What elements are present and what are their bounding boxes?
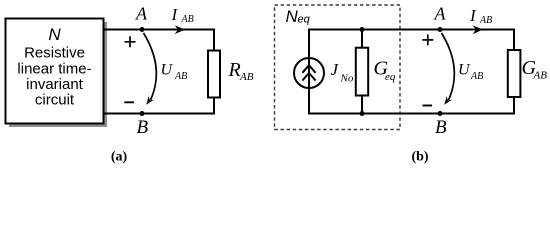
svg-text:B: B [435, 117, 447, 138]
wire Geq branch [361, 29, 363, 115]
wire bottom a (corner to box) [104, 113, 214, 115]
UAB arc a [144, 33, 157, 100]
junction dot Geq top [360, 27, 365, 32]
conductance Geq [356, 48, 368, 96]
svg-text:circuit: circuit [35, 92, 75, 109]
minus a [124, 101, 134, 103]
wire left branch b (through current source) [308, 29, 310, 115]
node B b [438, 111, 443, 116]
svg-text:R: R [228, 59, 241, 81]
current arrow b [473, 25, 483, 34]
UAB arc b [442, 33, 455, 100]
svg-text:AB: AB [239, 71, 254, 83]
box text [17, 45, 91, 109]
box shadow [9, 22, 107, 127]
box N resistive circuit [6, 19, 104, 124]
svg-text:AB: AB [479, 15, 492, 26]
svg-text:I: I [171, 5, 179, 24]
dashed box Neq [275, 5, 401, 130]
resistor RAB [208, 51, 220, 98]
junction dot Geq bottom [360, 111, 365, 116]
svg-text:linear time-: linear time- [17, 60, 91, 77]
wire top a (box to corner) [104, 29, 214, 31]
svg-text:(b): (b) [411, 150, 428, 165]
node A a [140, 27, 145, 32]
svg-text:A: A [434, 4, 447, 24]
svg-text:AB: AB [174, 71, 187, 82]
svg-text:AB: AB [181, 14, 194, 25]
node A b [438, 27, 443, 32]
wire top b [309, 29, 514, 31]
svg-text:I: I [469, 6, 477, 25]
svg-text:U: U [458, 62, 471, 79]
current source chevrons [302, 65, 315, 80]
svg-text:eq: eq [385, 71, 396, 83]
svg-text:eq: eq [298, 14, 311, 26]
svg-text:N: N [48, 25, 61, 44]
svg-text:J: J [331, 60, 340, 79]
svg-text:U: U [161, 62, 174, 79]
svg-text:AB: AB [533, 70, 548, 82]
svg-text:(a): (a) [111, 150, 128, 165]
wire right branch a [213, 29, 215, 115]
current source J circle [294, 58, 324, 88]
conductance GAB [508, 50, 521, 97]
plus a [125, 36, 136, 47]
current arrow a [175, 25, 185, 34]
svg-text:B: B [137, 117, 149, 138]
plus b [422, 34, 433, 45]
minus b [423, 105, 433, 107]
svg-text:No: No [340, 73, 354, 85]
wire right branch b [513, 29, 515, 115]
wire bottom b [309, 113, 514, 115]
svg-text:A: A [135, 4, 148, 24]
svg-text:AB: AB [470, 71, 483, 82]
node B a [140, 111, 145, 116]
svg-text:Resistive: Resistive [24, 45, 85, 62]
svg-text:invariant: invariant [26, 76, 84, 93]
